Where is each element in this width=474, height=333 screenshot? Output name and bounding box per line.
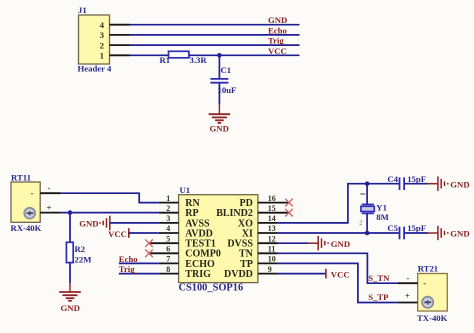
no-ERC cross on pin 16 xyxy=(285,199,293,207)
resistor R2 xyxy=(66,242,73,262)
svg-text:GND: GND xyxy=(79,218,98,228)
svg-text:Header 4: Header 4 xyxy=(78,64,113,74)
wire C4 to ground xyxy=(405,183,428,185)
no-ERC cross on pin 5 xyxy=(145,239,153,247)
pin 14 XO of U1 xyxy=(238,214,278,229)
pin 4 of J1 xyxy=(100,20,130,30)
svg-text:GND: GND xyxy=(450,179,469,189)
svg-text:10uF: 10uF xyxy=(218,85,237,95)
svg-text:TRIG: TRIG xyxy=(185,269,211,280)
svg-text:TX-40K: TX-40K xyxy=(417,313,448,323)
svg-text:15pF: 15pF xyxy=(407,223,426,233)
ground symbol at U1 pin 3 xyxy=(79,216,110,231)
pin 5 TEST1 of U1 xyxy=(149,234,216,249)
transducer symbol circle of RT11 xyxy=(24,208,35,219)
wire GND to pin 3 xyxy=(110,222,159,224)
svg-text:GND: GND xyxy=(61,303,80,313)
no-ERC cross on pin 15 xyxy=(285,209,293,217)
svg-text:S_TN: S_TN xyxy=(368,273,390,283)
pin 6 COMP0 of U1 xyxy=(149,245,221,260)
svg-text:4: 4 xyxy=(100,20,105,30)
svg-text:15: 15 xyxy=(268,204,276,213)
junction node crystal top xyxy=(365,181,370,186)
svg-text:+: + xyxy=(46,203,51,213)
wire crystal bottom to junction xyxy=(366,213,368,233)
ground at C4 xyxy=(438,176,470,191)
svg-text:Trig: Trig xyxy=(268,36,284,46)
transducer RT11 body xyxy=(11,182,40,222)
svg-text:U1: U1 xyxy=(180,185,191,195)
svg-text:11: 11 xyxy=(268,245,276,254)
wire Trig stub to pin 8 xyxy=(119,273,159,275)
svg-text:RT11: RT11 xyxy=(11,173,31,183)
capacitor C5 xyxy=(400,227,405,240)
pin 15 BLIND2 of U1 xyxy=(216,204,289,219)
svg-text:10: 10 xyxy=(268,255,276,264)
svg-text:1: 1 xyxy=(100,51,104,61)
svg-text:GND: GND xyxy=(268,15,287,25)
svg-text:5: 5 xyxy=(166,234,170,243)
svg-text:J1: J1 xyxy=(78,5,87,15)
pin 9 DVDD of U1 xyxy=(224,265,278,280)
wire DVSS to ground xyxy=(278,242,309,244)
pin 2 of J1 xyxy=(100,40,130,50)
svg-text:C4: C4 xyxy=(387,174,398,184)
ground below C1 xyxy=(209,105,231,134)
svg-text:15pF: 15pF xyxy=(407,174,426,184)
capacitor C1 xyxy=(210,79,228,83)
pin 7 ECHO of U1 xyxy=(159,255,215,270)
junction node crystal bottom xyxy=(365,231,370,236)
pin + of RT21 xyxy=(398,291,418,303)
pin 13 XI of U1 xyxy=(242,224,278,239)
svg-text:RT21: RT21 xyxy=(418,264,438,274)
wire R2 down xyxy=(69,263,71,283)
power VCC at U1 pin 4 xyxy=(108,228,129,239)
svg-text:R1: R1 xyxy=(160,55,171,65)
svg-text:2: 2 xyxy=(359,221,362,227)
svg-text:+: + xyxy=(405,291,410,301)
svg-text:16: 16 xyxy=(268,194,276,203)
connector J1 body xyxy=(79,15,110,64)
wire TN to RT21 xyxy=(278,253,398,283)
ground at C5 xyxy=(438,226,470,240)
wire Echo stub to pin 7 xyxy=(119,262,159,264)
svg-text:GND: GND xyxy=(331,239,350,249)
svg-text:14: 14 xyxy=(268,214,276,223)
svg-text:-: - xyxy=(48,183,51,193)
pin 3 of J1 xyxy=(100,30,130,40)
svg-text:12: 12 xyxy=(268,234,276,243)
svg-text:1: 1 xyxy=(166,194,170,203)
pin 3 AVSS of U1 xyxy=(159,214,210,229)
pin 11 TN of U1 xyxy=(239,245,278,260)
wire C5 to ground xyxy=(405,232,428,234)
svg-text:S_TP: S_TP xyxy=(368,292,389,302)
svg-text:13: 13 xyxy=(268,224,276,233)
wire from J1 pin 1 to R1 xyxy=(130,54,169,56)
wire from RT11 + to U1 RP xyxy=(61,212,159,214)
svg-text:Echo: Echo xyxy=(119,254,138,264)
svg-text:4: 4 xyxy=(166,224,170,233)
pin 10 TP of U1 xyxy=(240,255,278,270)
svg-text:Echo: Echo xyxy=(268,25,287,35)
wire from C1 down xyxy=(218,83,220,104)
svg-text:C1: C1 xyxy=(221,65,232,75)
svg-text:2: 2 xyxy=(100,40,105,50)
svg-text:-: - xyxy=(423,278,426,288)
svg-text:DVDD: DVDD xyxy=(224,269,253,280)
wire junction to crystal top xyxy=(366,184,368,205)
svg-text:GND: GND xyxy=(210,124,229,134)
pin 12 DVSS of U1 xyxy=(227,234,278,249)
svg-text:GND: GND xyxy=(450,229,469,239)
junction node at R1 / C1 xyxy=(217,53,222,58)
capacitor C4 xyxy=(400,177,405,190)
junction node RT11+/R2 xyxy=(68,210,73,215)
wire XI to C5 xyxy=(278,232,399,234)
resistor R1 xyxy=(169,51,189,58)
svg-text:22M: 22M xyxy=(75,254,92,264)
svg-text:6: 6 xyxy=(166,245,170,254)
svg-text:9: 9 xyxy=(268,265,272,274)
wire Trig net from J1 pin 2 xyxy=(130,44,300,46)
svg-text:8: 8 xyxy=(166,265,170,274)
wire TP to RT21 xyxy=(278,263,398,302)
wire from RT11 - to U1 RN xyxy=(61,193,159,202)
svg-text:-: - xyxy=(31,188,34,198)
svg-text:-: - xyxy=(406,273,409,283)
pin 16 PD of U1 xyxy=(240,194,290,209)
wire junction top to C4 xyxy=(367,183,399,185)
power VCC at U1 pin 9 xyxy=(326,269,350,280)
svg-text:VCC: VCC xyxy=(268,46,287,56)
svg-text:3.3R: 3.3R xyxy=(190,55,208,65)
wire from junction down to C1 xyxy=(218,55,220,78)
no-ERC cross on pin 6 xyxy=(145,250,153,258)
wire GND net from J1 pin 4 xyxy=(130,24,300,26)
wire junction down to R2 xyxy=(69,213,71,243)
pin 2 RP of U1 xyxy=(159,204,199,219)
svg-text:RX-40K: RX-40K xyxy=(11,223,42,233)
pin - of RT21 xyxy=(398,273,426,288)
wire Echo net from J1 pin 3 xyxy=(130,34,300,36)
svg-text:CS100_SOP16: CS100_SOP16 xyxy=(179,283,244,294)
pin + of RT11 xyxy=(40,203,60,213)
svg-text:C5: C5 xyxy=(387,223,398,233)
svg-text:8M: 8M xyxy=(376,212,389,222)
svg-text:7: 7 xyxy=(166,255,170,264)
wire XO to crystal xyxy=(278,184,367,223)
pin - of RT11 xyxy=(31,183,61,199)
transducer RT21 body xyxy=(418,274,448,312)
svg-text:2: 2 xyxy=(166,204,170,213)
crystal Y1 xyxy=(359,194,374,227)
pin 1 of J1 xyxy=(100,51,130,61)
svg-text:Trig: Trig xyxy=(119,264,135,274)
svg-text:3: 3 xyxy=(166,214,170,223)
svg-text:Y1: Y1 xyxy=(376,202,387,212)
wire from R1 to VCC net xyxy=(189,54,300,56)
pin 8 TRIG of U1 xyxy=(159,265,211,280)
svg-text:R2: R2 xyxy=(75,244,86,254)
transducer symbol circle of RT21 xyxy=(422,297,433,308)
wire DVDD to VCC xyxy=(278,273,326,275)
svg-text:VCC: VCC xyxy=(331,269,350,279)
ground below R2 xyxy=(59,283,81,313)
svg-text:VCC: VCC xyxy=(108,229,127,239)
pin 4 AVDD of U1 xyxy=(159,224,213,239)
svg-text:3: 3 xyxy=(100,30,105,40)
wire VCC to pin 4 xyxy=(129,232,159,234)
op-amp chip U1 body xyxy=(179,195,258,283)
ground at U1 pin 12 xyxy=(318,236,350,251)
pin 1 RN of U1 xyxy=(159,194,201,209)
